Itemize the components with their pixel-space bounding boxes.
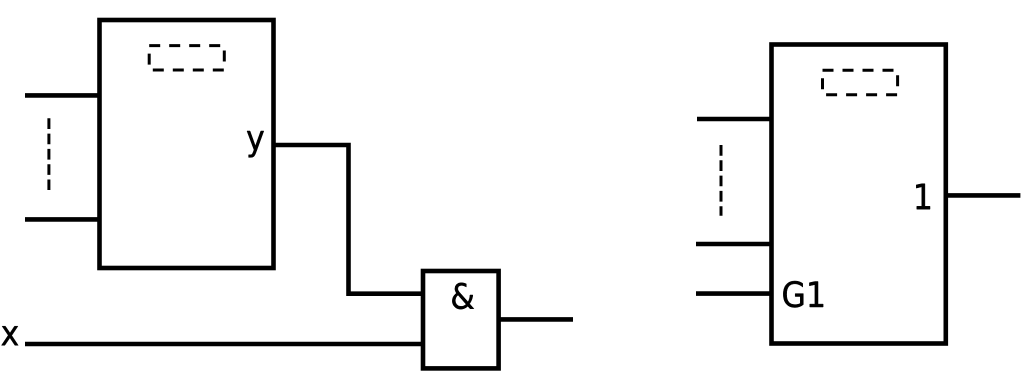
- block U3 (IEC logic-symbol outline, right): [772, 45, 946, 344]
- U3 dashed label box: [823, 70, 898, 94]
- net label x: [2, 326, 19, 345]
- U1 input wire 2: [25, 217, 101, 222]
- U3 omitted-inputs dashed line: [720, 145, 723, 216]
- U3 output wire: [946, 193, 1021, 198]
- U3 input wire 2: [696, 242, 773, 247]
- U1 output pin label y: [247, 131, 264, 157]
- AND gate output wire: [499, 317, 573, 322]
- block U1 (IEC logic-symbol outline, left): [100, 20, 274, 268]
- U3 enable input wire G1: [696, 291, 773, 296]
- U3 enable pin label G1: [783, 281, 823, 308]
- wire from U1 output y to AND gate input: [274, 145, 425, 294]
- U1 dashed label box: [149, 46, 224, 70]
- U3 input wire 1: [697, 117, 773, 122]
- U1 input wire 1: [25, 93, 101, 98]
- AND gate U2 outline: [423, 271, 499, 368]
- AND gate label &: [452, 283, 474, 310]
- input wire x to AND gate: [25, 342, 424, 347]
- U3 output pin label 1: [916, 184, 930, 210]
- U1 omitted-inputs dashed line: [47, 118, 50, 190]
